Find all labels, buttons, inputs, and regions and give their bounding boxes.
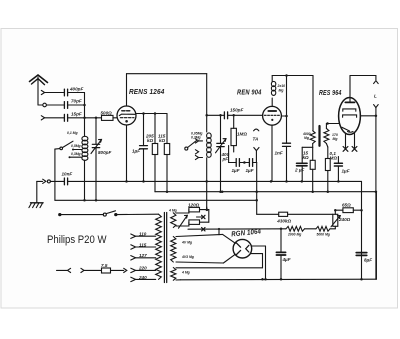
svg-text:pF: pF: [222, 157, 229, 162]
svg-text:L: L: [374, 94, 377, 99]
svg-text:500Ω: 500Ω: [101, 110, 113, 115]
svg-text:70pF: 70pF: [71, 99, 82, 104]
svg-text:TA: TA: [253, 137, 259, 142]
svg-text:120Ω: 120Ω: [188, 203, 200, 208]
svg-text:115: 115: [139, 242, 147, 247]
svg-text:kΩ: kΩ: [147, 138, 154, 143]
svg-text:400pF: 400pF: [69, 87, 83, 92]
svg-text:1µF: 1µF: [132, 149, 140, 154]
svg-text:0,3Mg: 0,3Mg: [191, 136, 202, 140]
svg-text:Philips P20 W: Philips P20 W: [47, 234, 107, 246]
svg-text:110: 110: [139, 232, 147, 237]
svg-text:REN 904: REN 904: [237, 88, 262, 97]
svg-text:2 µF: 2 µF: [294, 168, 304, 173]
svg-text:4V Mg: 4V Mg: [181, 241, 193, 245]
svg-text:4V3 Mg: 4V3 Mg: [181, 255, 195, 259]
svg-text:8µF: 8µF: [364, 258, 372, 263]
svg-text:0,1 Mg: 0,1 Mg: [67, 131, 78, 135]
svg-text:RENS 1264: RENS 1264: [129, 87, 165, 96]
svg-text:kΩ: kΩ: [303, 155, 310, 160]
svg-text:150pF: 150pF: [230, 107, 243, 112]
svg-text:0,5Mg: 0,5Mg: [71, 144, 82, 148]
svg-text:4 Mg: 4 Mg: [168, 209, 178, 213]
svg-text:2000 Mg: 2000 Mg: [287, 233, 302, 237]
svg-text:15pF: 15pF: [71, 111, 82, 116]
svg-text:MΩ: MΩ: [330, 155, 338, 160]
svg-text:1µF: 1µF: [342, 168, 350, 173]
svg-text:kΩ: kΩ: [159, 138, 166, 143]
svg-text:RES 964: RES 964: [319, 88, 342, 97]
svg-text:240: 240: [138, 275, 147, 280]
svg-text:1µF: 1µF: [246, 168, 254, 173]
svg-text:127: 127: [139, 253, 147, 258]
svg-text:65Ω: 65Ω: [342, 203, 351, 208]
svg-text:7,5: 7,5: [101, 263, 108, 268]
svg-text:2x10: 2x10: [277, 84, 286, 88]
svg-text:430kΩ: 430kΩ: [276, 218, 291, 223]
svg-text:1µF: 1µF: [232, 168, 240, 173]
svg-text:1nF: 1nF: [275, 151, 283, 156]
svg-text:10nF: 10nF: [62, 172, 73, 177]
svg-text:5000 Mg: 5000 Mg: [317, 233, 331, 237]
svg-text:1MΩ: 1MΩ: [237, 132, 247, 137]
svg-text:220: 220: [138, 266, 147, 271]
svg-text:240Ω: 240Ω: [338, 217, 351, 222]
svg-text:4µF: 4µF: [282, 257, 291, 262]
svg-text:0,3Mg: 0,3Mg: [71, 152, 82, 156]
svg-text:4 Mg: 4 Mg: [181, 271, 191, 275]
svg-text:800pF: 800pF: [98, 150, 111, 155]
